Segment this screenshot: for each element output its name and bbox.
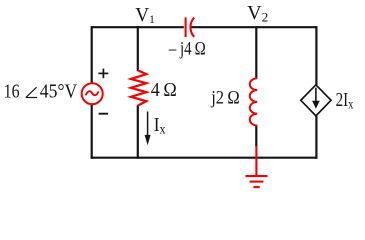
wire: left branch upper (top rail down to source top) xyxy=(91,26,93,83)
wire: bottom rail xyxy=(91,157,318,159)
wire: top rail right segment (capacitor right plate to node V2 and top-right corner) xyxy=(190,26,317,28)
svg-text:j2 Ω: j2 Ω xyxy=(210,89,239,109)
voltage source plus sign xyxy=(98,69,108,79)
resistor R1 4-ohm zigzag xyxy=(131,70,146,105)
svg-text:45°V: 45°V xyxy=(40,82,78,103)
wire: right branch lower (current source bottom to bottom rail) xyxy=(315,116,317,159)
capacitor C1 right curved plate xyxy=(190,18,194,37)
wire: V2 branch lower (inductor bottom toward bottom rail) xyxy=(255,125,257,146)
wire: top rail left segment (source node to capacitor left plate) xyxy=(92,26,184,28)
ground bar 2 (middle) xyxy=(250,181,264,183)
voltage source Vs circle xyxy=(82,83,103,104)
svg-text:– j4 Ω: – j4 Ω xyxy=(168,39,206,59)
svg-text:16: 16 xyxy=(4,82,20,103)
wire: V1 branch lower (resistor bottom to bottom rail) xyxy=(137,105,139,159)
current arrow Ix shaft xyxy=(147,112,149,141)
inductor L1 coil xyxy=(250,78,257,125)
current arrow Ix head xyxy=(145,135,151,145)
svg-text:Ix: Ix xyxy=(154,114,166,138)
ground bar 1 (long) xyxy=(246,175,268,177)
angle symbol of source label xyxy=(26,87,37,97)
dependent source arrow head xyxy=(312,101,320,109)
ground bar 3 (short) xyxy=(253,186,259,188)
wire: V1 branch upper (top rail to resistor top) xyxy=(137,26,139,71)
svg-text:V2: V2 xyxy=(247,3,268,24)
wire: V2 branch upper (top rail to inductor top) xyxy=(255,26,257,78)
dependent source arrow shaft xyxy=(315,88,317,104)
svg-text:V1: V1 xyxy=(135,5,155,26)
wire: right branch upper (top-right corner to current source top) xyxy=(315,26,317,85)
voltage source minus sign xyxy=(99,113,109,115)
wire: left branch lower (source bottom to bottom rail) xyxy=(91,104,93,159)
svg-text:2Ix: 2Ix xyxy=(336,90,354,112)
capacitor C1 left plate xyxy=(185,17,187,37)
voltage source sine tilde xyxy=(86,91,98,95)
ground stem xyxy=(255,146,257,176)
svg-text:4 Ω: 4 Ω xyxy=(151,79,177,101)
dependent current source diamond xyxy=(301,85,331,116)
